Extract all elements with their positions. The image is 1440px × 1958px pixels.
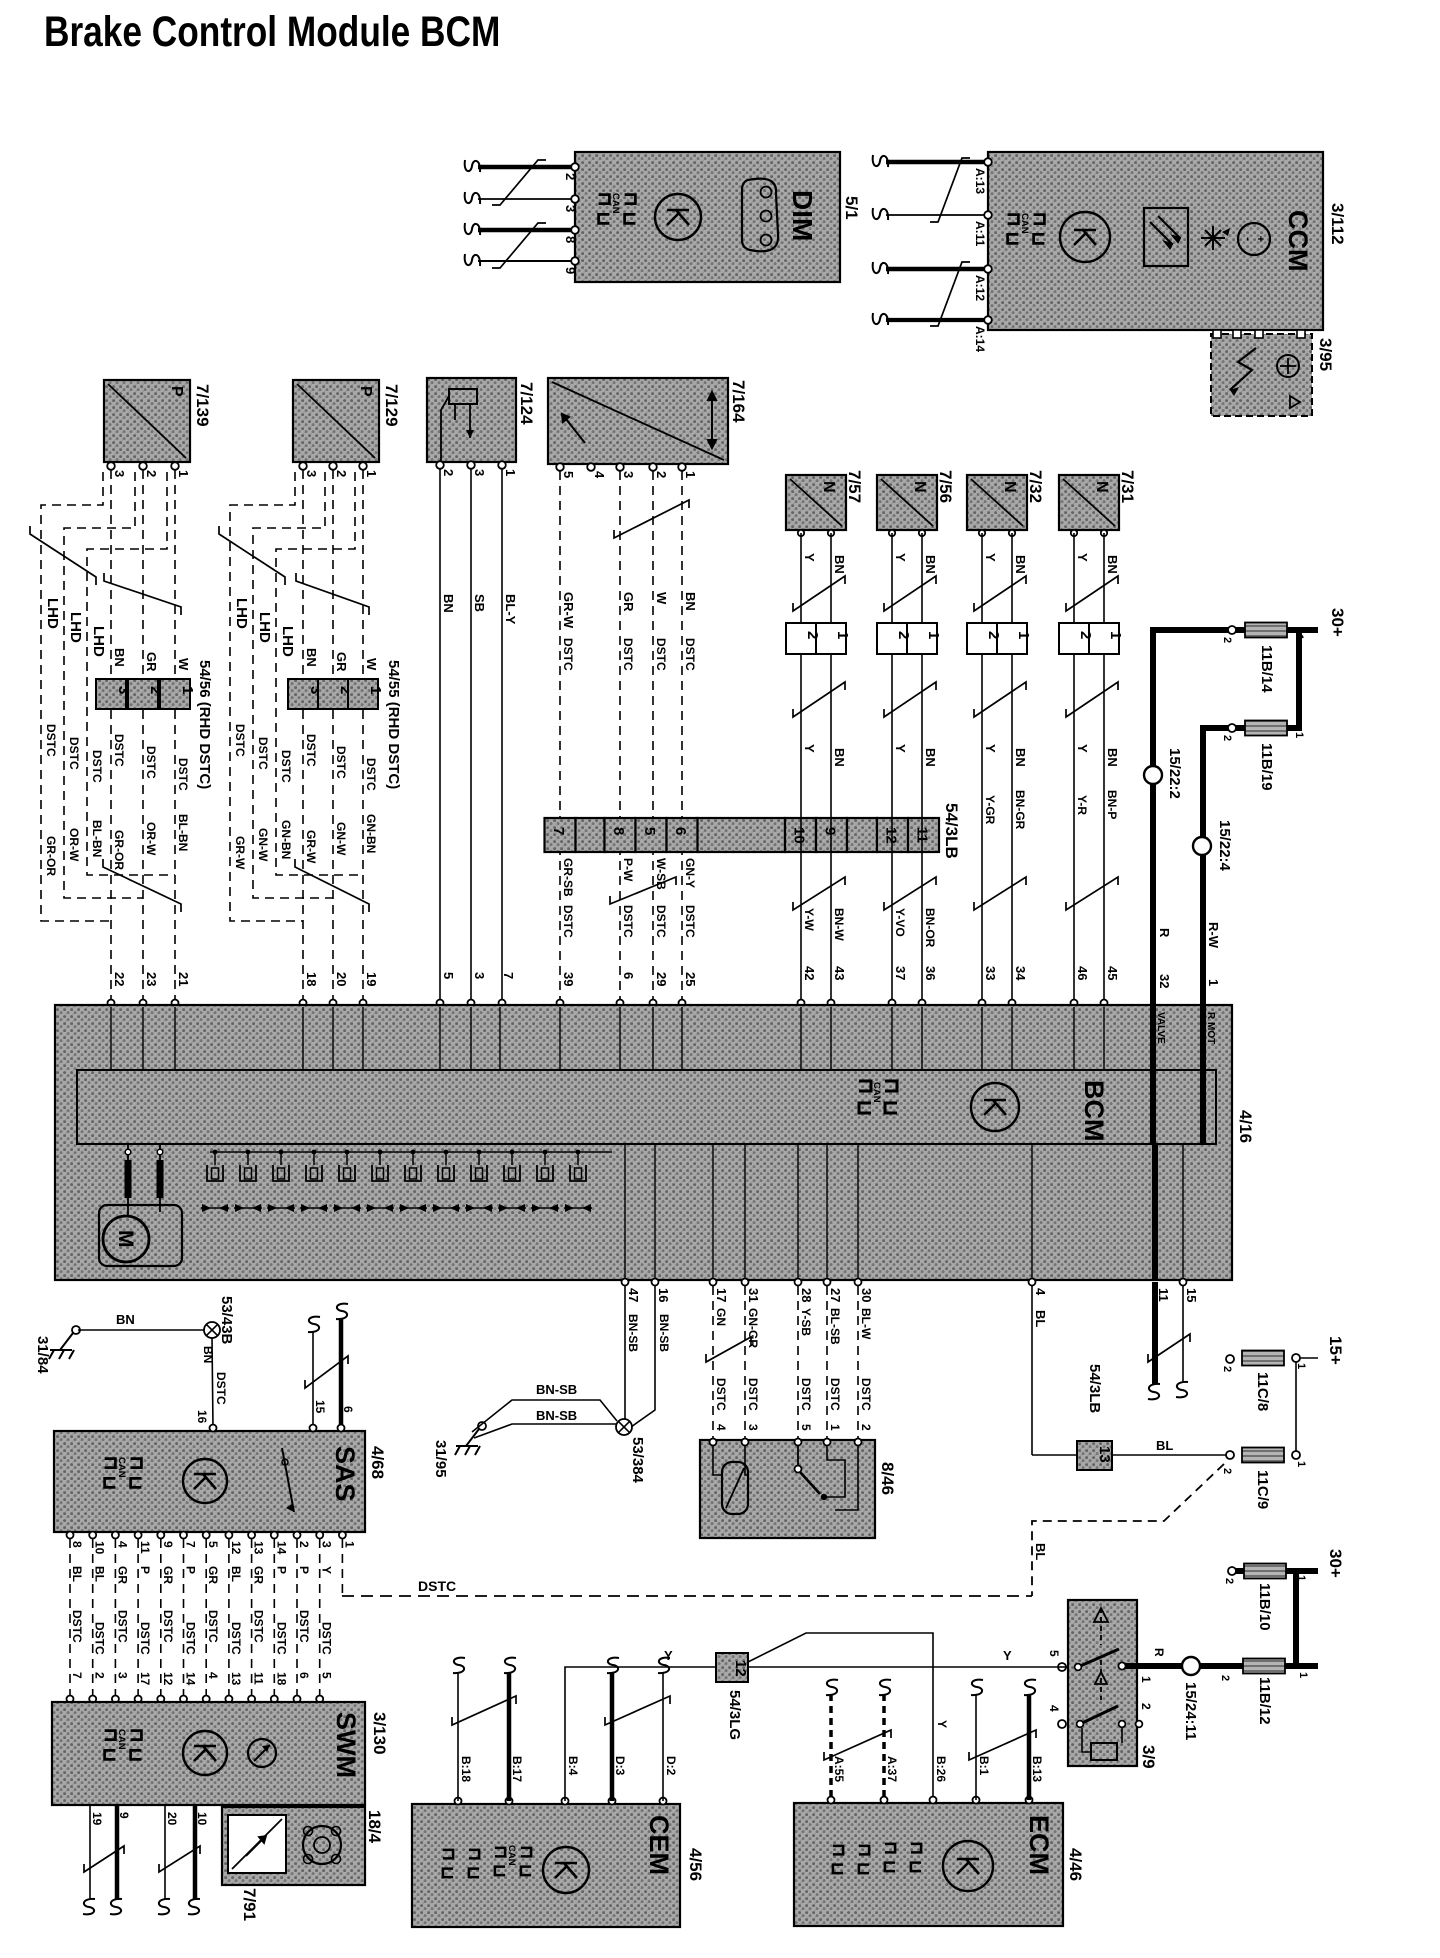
- svg-text:1: 1: [683, 471, 698, 478]
- svg-text:DSTC: DSTC: [621, 905, 635, 938]
- svg-text:M: M: [114, 1230, 137, 1248]
- svg-text:12: 12: [883, 827, 900, 844]
- svg-text:DSTC: DSTC: [70, 1610, 84, 1643]
- svg-text:10: 10: [195, 1812, 209, 1826]
- svg-text:BL: BL: [70, 1566, 84, 1582]
- svg-text:BN: BN: [832, 748, 847, 767]
- svg-text:7: 7: [70, 1672, 84, 1679]
- svg-text:2: 2: [985, 631, 1002, 639]
- svg-text:Y: Y: [1075, 744, 1090, 753]
- svg-text:1: 1: [1295, 1363, 1307, 1369]
- svg-text:1: 1: [828, 1424, 842, 1431]
- svg-text:DSTC: DSTC: [364, 758, 378, 791]
- svg-text:14: 14: [184, 1672, 198, 1686]
- svg-text:17: 17: [714, 1288, 729, 1302]
- svg-text:23: 23: [144, 972, 159, 986]
- svg-text:7/124: 7/124: [517, 382, 536, 425]
- svg-text:CAN: CAN: [506, 1845, 517, 1866]
- svg-text:32: 32: [1157, 974, 1172, 988]
- svg-text:BCM: BCM: [1079, 1080, 1109, 1142]
- svg-text:DSTC: DSTC: [859, 1378, 873, 1411]
- svg-text:DSTC: DSTC: [418, 1578, 456, 1594]
- svg-text:3: 3: [320, 1541, 334, 1548]
- svg-text:19: 19: [364, 972, 379, 986]
- svg-text:2: 2: [1221, 735, 1233, 741]
- svg-text:28: 28: [799, 1288, 814, 1302]
- svg-text:5: 5: [1047, 1650, 1061, 1657]
- svg-text:11C/8: 11C/8: [1254, 1372, 1271, 1411]
- svg-text:BN: BN: [112, 648, 127, 667]
- svg-text:3/112: 3/112: [1328, 203, 1347, 245]
- svg-text:3: 3: [304, 470, 319, 477]
- svg-text:DSTC: DSTC: [274, 1622, 288, 1655]
- svg-text:P: P: [274, 1566, 288, 1574]
- svg-text:47: 47: [626, 1288, 641, 1302]
- svg-text:6: 6: [621, 972, 636, 979]
- svg-text:1: 1: [1015, 631, 1032, 639]
- svg-text:Y: Y: [983, 744, 998, 753]
- svg-text:CAN: CAN: [610, 193, 621, 214]
- svg-text:2: 2: [1077, 631, 1094, 639]
- svg-text:R-W: R-W: [1206, 922, 1221, 949]
- svg-text:BN: BN: [304, 648, 319, 667]
- svg-text:3: 3: [115, 1672, 129, 1679]
- svg-text:+: +: [1254, 236, 1266, 242]
- svg-text:5: 5: [441, 972, 456, 979]
- svg-text:DIM: DIM: [787, 190, 818, 241]
- svg-text:16: 16: [656, 1288, 671, 1302]
- svg-text:34: 34: [1013, 966, 1028, 981]
- svg-text:21: 21: [176, 972, 191, 986]
- svg-text:11B/14: 11B/14: [1258, 645, 1275, 693]
- svg-text:B:13: B:13: [1030, 1756, 1044, 1782]
- svg-text:10: 10: [93, 1541, 107, 1555]
- svg-text:54/3LB: 54/3LB: [942, 803, 961, 859]
- svg-text:13: 13: [1096, 1446, 1113, 1463]
- svg-text:CEM: CEM: [644, 1815, 674, 1875]
- svg-text:GR: GR: [621, 592, 636, 612]
- svg-text:R: R: [1152, 1648, 1166, 1657]
- svg-text:R: R: [1157, 928, 1172, 938]
- svg-text:18: 18: [304, 972, 319, 986]
- svg-text:11: 11: [252, 1672, 266, 1685]
- svg-text:37: 37: [893, 966, 908, 980]
- svg-text:19: 19: [90, 1812, 104, 1826]
- svg-text:25: 25: [683, 972, 698, 986]
- svg-text:3: 3: [621, 471, 636, 478]
- svg-text:6: 6: [341, 1406, 355, 1413]
- svg-text:CAN: CAN: [1019, 213, 1030, 234]
- svg-text:DSTC: DSTC: [297, 1610, 311, 1643]
- svg-text:2: 2: [654, 471, 669, 478]
- svg-text:DSTC: DSTC: [654, 638, 668, 671]
- svg-text:DSTC: DSTC: [683, 638, 697, 671]
- svg-text:BN: BN: [832, 555, 847, 574]
- svg-text:30: 30: [859, 1288, 874, 1302]
- svg-text:4: 4: [206, 1672, 220, 1679]
- svg-text:11B/12: 11B/12: [1256, 1677, 1273, 1725]
- svg-text:BN-SB: BN-SB: [536, 1408, 577, 1423]
- svg-text:DSTC: DSTC: [683, 905, 697, 938]
- svg-text:DSTC: DSTC: [115, 1610, 129, 1643]
- svg-text:3/9: 3/9: [1139, 1745, 1158, 1769]
- svg-text:20: 20: [165, 1812, 179, 1826]
- svg-text:2: 2: [1139, 1703, 1153, 1710]
- svg-text:DSTC: DSTC: [233, 724, 247, 757]
- svg-text:Brake Control Module BCM: Brake Control Module BCM: [44, 8, 500, 56]
- svg-text:5: 5: [561, 471, 576, 478]
- svg-text:BN: BN: [116, 1312, 135, 1327]
- svg-text:SWM: SWM: [331, 1712, 361, 1778]
- svg-text:7/56: 7/56: [936, 470, 955, 503]
- svg-text:14: 14: [274, 1541, 288, 1555]
- svg-text:BN: BN: [1013, 748, 1028, 767]
- svg-text:Y: Y: [893, 744, 908, 753]
- svg-text:A:37: A:37: [885, 1756, 899, 1782]
- svg-text:43: 43: [832, 966, 847, 980]
- svg-text:BL-Y: BL-Y: [503, 594, 518, 625]
- svg-text:GR-SB: GR-SB: [561, 858, 575, 897]
- svg-text:-: -: [1242, 237, 1254, 241]
- svg-text:BN-SB: BN-SB: [626, 1314, 640, 1352]
- svg-text:BL: BL: [1033, 1310, 1048, 1327]
- svg-text:BL-W: BL-W: [859, 1308, 873, 1340]
- svg-text:GN: GN: [714, 1308, 728, 1326]
- svg-text:2: 2: [859, 1424, 873, 1431]
- svg-text:1: 1: [1293, 732, 1305, 738]
- svg-text:GN-W: GN-W: [334, 822, 348, 856]
- svg-text:2: 2: [93, 1672, 107, 1679]
- svg-text:4/16: 4/16: [1236, 1110, 1255, 1143]
- svg-text:2: 2: [297, 1541, 311, 1548]
- svg-text:DSTC: DSTC: [561, 638, 575, 671]
- svg-text:GR-W: GR-W: [561, 592, 576, 629]
- svg-text:B:4: B:4: [566, 1756, 580, 1776]
- svg-text:11C/9: 11C/9: [1254, 1470, 1271, 1509]
- svg-text:15/22:2: 15/22:2: [1166, 748, 1183, 799]
- svg-text:ECM: ECM: [1024, 1815, 1054, 1875]
- svg-text:N: N: [820, 481, 837, 493]
- svg-text:GR: GR: [144, 652, 159, 672]
- svg-text:11B/10: 11B/10: [1256, 1583, 1273, 1631]
- svg-text:GR: GR: [206, 1566, 220, 1584]
- svg-text:LHD: LHD: [67, 612, 84, 643]
- svg-text:1: 1: [179, 686, 196, 694]
- svg-text:18: 18: [274, 1672, 288, 1686]
- svg-text:45: 45: [1105, 966, 1120, 980]
- svg-text:A:13: A:13: [973, 168, 987, 194]
- svg-text:W: W: [364, 658, 379, 671]
- svg-text:9: 9: [117, 1812, 131, 1819]
- svg-text:33: 33: [983, 966, 998, 980]
- svg-text:1: 1: [1107, 631, 1124, 639]
- svg-text:CAN: CAN: [116, 1457, 127, 1478]
- svg-text:1: 1: [1295, 1461, 1307, 1467]
- svg-text:DSTC: DSTC: [304, 734, 318, 767]
- svg-text:46: 46: [1075, 966, 1090, 980]
- svg-text:4: 4: [115, 1541, 129, 1548]
- svg-text:5: 5: [206, 1541, 220, 1548]
- svg-text:7/164: 7/164: [729, 380, 748, 423]
- svg-text:2: 2: [144, 470, 159, 477]
- svg-text:D:2: D:2: [664, 1756, 678, 1776]
- svg-text:P: P: [297, 1566, 311, 1574]
- svg-text:2: 2: [1223, 1578, 1235, 1584]
- svg-text:DSTC: DSTC: [828, 1378, 842, 1411]
- svg-text:15+: 15+: [1326, 1336, 1345, 1365]
- svg-text:GR-W: GR-W: [304, 830, 318, 864]
- svg-text:BN-SB: BN-SB: [657, 1314, 671, 1352]
- svg-text:4/68: 4/68: [368, 1446, 387, 1479]
- svg-text:8: 8: [610, 827, 627, 835]
- svg-text:GN-BN: GN-BN: [364, 814, 378, 853]
- svg-text:N: N: [1093, 481, 1110, 493]
- svg-text:DSTC: DSTC: [746, 1378, 760, 1411]
- svg-text:P: P: [168, 386, 185, 397]
- svg-text:Y: Y: [802, 744, 817, 753]
- svg-text:2: 2: [441, 469, 456, 476]
- svg-text:CAN: CAN: [871, 1082, 882, 1103]
- svg-text:DSTC: DSTC: [93, 1622, 107, 1655]
- svg-text:A:55: A:55: [832, 1756, 846, 1782]
- svg-text:GR: GR: [252, 1566, 266, 1584]
- svg-text:BN: BN: [923, 748, 938, 767]
- svg-text:11: 11: [138, 1541, 152, 1554]
- svg-text:DSTC: DSTC: [112, 734, 126, 767]
- svg-text:1: 1: [1295, 1575, 1307, 1581]
- svg-text:15/24:11: 15/24:11: [1182, 1682, 1199, 1740]
- svg-text:5: 5: [799, 1424, 813, 1431]
- svg-text:BN: BN: [1105, 555, 1120, 574]
- svg-text:6: 6: [672, 827, 689, 835]
- svg-text:BN-W: BN-W: [832, 908, 846, 941]
- svg-text:GR-OR: GR-OR: [44, 836, 58, 876]
- svg-text:7: 7: [501, 972, 516, 979]
- svg-text:SB: SB: [472, 594, 487, 612]
- svg-text:BN-OR: BN-OR: [923, 908, 937, 948]
- svg-text:54/3LB: 54/3LB: [1086, 1364, 1103, 1413]
- svg-text:11B/19: 11B/19: [1258, 743, 1275, 791]
- svg-text:1: 1: [1297, 1672, 1309, 1678]
- svg-text:12: 12: [732, 1660, 749, 1677]
- svg-text:17: 17: [138, 1672, 152, 1686]
- svg-text:8: 8: [563, 236, 578, 243]
- svg-text:Y: Y: [935, 1720, 949, 1728]
- svg-text:Y: Y: [664, 1648, 673, 1663]
- svg-text:BL: BL: [1033, 1543, 1048, 1560]
- svg-text:30+: 30+: [1326, 1549, 1345, 1578]
- svg-text:DSTC: DSTC: [799, 1378, 813, 1411]
- svg-text:Y: Y: [893, 553, 908, 562]
- svg-text:10: 10: [791, 827, 808, 844]
- svg-text:7/129: 7/129: [382, 384, 401, 427]
- svg-text:BN: BN: [201, 1346, 215, 1363]
- svg-text:BN-SB: BN-SB: [536, 1382, 577, 1397]
- svg-text:B:1: B:1: [977, 1756, 991, 1776]
- svg-text:1: 1: [503, 469, 518, 476]
- svg-text:LHD: LHD: [90, 626, 107, 657]
- svg-text:Y-R: Y-R: [1075, 795, 1089, 815]
- svg-text:29: 29: [654, 972, 669, 986]
- svg-text:1: 1: [1206, 979, 1221, 986]
- svg-text:8: 8: [70, 1541, 84, 1548]
- svg-text:22: 22: [112, 972, 127, 986]
- svg-text:B:26: B:26: [934, 1756, 948, 1782]
- svg-text:GR-OR: GR-OR: [112, 830, 126, 870]
- svg-text:DSTC: DSTC: [138, 1622, 152, 1655]
- svg-text:BN: BN: [1105, 748, 1120, 767]
- svg-text:P: P: [184, 1566, 198, 1574]
- svg-text:54/55 (RHD DSTC): 54/55 (RHD DSTC): [385, 660, 402, 789]
- svg-text:LHD: LHD: [279, 626, 296, 657]
- svg-text:BL-BN: BL-BN: [176, 814, 190, 851]
- svg-text:OR-W: OR-W: [67, 828, 81, 862]
- svg-text:Y-VO: Y-VO: [893, 908, 907, 937]
- svg-text:4: 4: [1033, 1288, 1048, 1296]
- svg-text:4/46: 4/46: [1066, 1848, 1085, 1881]
- svg-text:CCM: CCM: [1283, 210, 1313, 272]
- svg-text:2: 2: [1221, 1366, 1233, 1372]
- svg-text:1: 1: [1139, 1676, 1153, 1683]
- svg-text:7/139: 7/139: [193, 384, 212, 427]
- svg-text:CAN: CAN: [116, 1729, 127, 1750]
- svg-text:Y: Y: [1003, 1648, 1012, 1663]
- svg-text:53/43B: 53/43B: [218, 1296, 235, 1345]
- svg-text:W: W: [176, 658, 191, 671]
- svg-text:54/3LG: 54/3LG: [726, 1690, 743, 1740]
- svg-text:1: 1: [176, 470, 191, 477]
- svg-text:3: 3: [472, 972, 487, 979]
- svg-text:Y-W: Y-W: [802, 908, 816, 931]
- svg-text:31: 31: [746, 1288, 761, 1302]
- svg-text:7/91: 7/91: [240, 1888, 259, 1921]
- svg-text:39: 39: [561, 972, 576, 986]
- svg-text:3: 3: [746, 1424, 760, 1431]
- svg-text:4: 4: [1047, 1705, 1061, 1712]
- svg-text:BN-P: BN-P: [1105, 790, 1119, 819]
- svg-text:1: 1: [364, 470, 379, 477]
- svg-text:P: P: [357, 386, 374, 397]
- svg-text:3: 3: [563, 205, 578, 212]
- svg-text:DSTC: DSTC: [176, 758, 190, 791]
- svg-text:4: 4: [714, 1424, 728, 1431]
- svg-text:1: 1: [834, 631, 851, 639]
- svg-text:42: 42: [802, 966, 817, 980]
- svg-text:DSTC: DSTC: [279, 750, 293, 783]
- svg-text:15: 15: [313, 1400, 327, 1414]
- svg-text:DSTC: DSTC: [561, 905, 575, 938]
- svg-text:GN-Y: GN-Y: [683, 858, 697, 888]
- svg-text:7/31: 7/31: [1118, 470, 1137, 503]
- svg-text:OR-W: OR-W: [144, 822, 158, 856]
- svg-text:7: 7: [550, 827, 567, 835]
- svg-text:BL-BN: BL-BN: [90, 820, 104, 857]
- svg-text:A:14: A:14: [973, 326, 987, 352]
- svg-text:20: 20: [334, 972, 349, 986]
- svg-text:BN-GR: BN-GR: [1013, 790, 1027, 830]
- svg-text:5/1: 5/1: [842, 196, 861, 220]
- svg-text:DSTC: DSTC: [214, 1372, 228, 1405]
- svg-text:BN: BN: [683, 592, 698, 611]
- svg-text:30+: 30+: [1328, 608, 1347, 637]
- svg-text:DSTC: DSTC: [229, 1622, 243, 1655]
- svg-text:P-W: P-W: [621, 858, 635, 882]
- svg-text:GN-W: GN-W: [256, 828, 270, 862]
- svg-text:7/32: 7/32: [1026, 470, 1045, 503]
- svg-text:A:11: A:11: [973, 221, 987, 247]
- svg-text:BL-SB: BL-SB: [828, 1308, 842, 1345]
- svg-text:7: 7: [184, 1541, 198, 1548]
- svg-text:DSTC: DSTC: [144, 746, 158, 779]
- svg-text:BL: BL: [229, 1566, 243, 1582]
- svg-text:2: 2: [1219, 1675, 1231, 1681]
- svg-text:DSTC: DSTC: [621, 638, 635, 671]
- svg-text:5: 5: [320, 1672, 334, 1679]
- svg-text:4/56: 4/56: [686, 1848, 705, 1881]
- svg-text:9: 9: [563, 267, 578, 274]
- svg-text:3/130: 3/130: [370, 1712, 389, 1755]
- svg-text:9: 9: [822, 827, 839, 835]
- svg-text:N: N: [1001, 481, 1018, 493]
- svg-text:2: 2: [563, 173, 578, 180]
- svg-text:GN-BN: GN-BN: [279, 820, 293, 859]
- svg-text:13: 13: [229, 1672, 243, 1686]
- svg-text:GR-W: GR-W: [233, 836, 247, 870]
- svg-text:5: 5: [641, 827, 658, 835]
- svg-text:2: 2: [1221, 637, 1233, 643]
- svg-text:15/22:4: 15/22:4: [1216, 820, 1233, 872]
- svg-text:1: 1: [925, 631, 942, 639]
- svg-text:A:12: A:12: [973, 275, 987, 301]
- svg-text:15: 15: [1184, 1288, 1199, 1302]
- svg-text:DSTC: DSTC: [334, 746, 348, 779]
- svg-text:1: 1: [342, 1541, 356, 1548]
- svg-text:LHD: LHD: [44, 598, 61, 629]
- svg-text:Y: Y: [1075, 553, 1090, 562]
- svg-text:2: 2: [334, 470, 349, 477]
- svg-text:3: 3: [112, 470, 127, 477]
- svg-text:BN: BN: [923, 555, 938, 574]
- svg-text:GN-GR: GN-GR: [746, 1308, 760, 1348]
- svg-text:Y: Y: [320, 1566, 334, 1574]
- svg-text:11: 11: [1156, 1288, 1171, 1302]
- svg-text:GR: GR: [161, 1566, 175, 1584]
- svg-text:6: 6: [297, 1672, 311, 1679]
- svg-text:1: 1: [1293, 634, 1305, 640]
- svg-text:27: 27: [828, 1288, 843, 1302]
- svg-text:12: 12: [161, 1672, 175, 1686]
- svg-text:DSTC: DSTC: [654, 905, 668, 938]
- svg-text:8/46: 8/46: [878, 1462, 897, 1495]
- svg-text:DSTC: DSTC: [256, 737, 270, 770]
- svg-text:BN: BN: [1013, 555, 1028, 574]
- svg-text:P: P: [138, 1566, 152, 1574]
- svg-text:9: 9: [161, 1541, 175, 1548]
- svg-text:3/95: 3/95: [1316, 338, 1335, 371]
- svg-text:R MOT: R MOT: [1205, 1012, 1216, 1044]
- svg-text:54/56 (RHD DSTC): 54/56 (RHD DSTC): [196, 660, 213, 789]
- svg-text:2: 2: [895, 631, 912, 639]
- svg-text:7/57: 7/57: [845, 470, 864, 503]
- svg-text:BN: BN: [441, 594, 456, 613]
- svg-text:4: 4: [592, 471, 607, 479]
- svg-text:GR: GR: [115, 1566, 129, 1584]
- svg-text:DSTC: DSTC: [161, 1610, 175, 1643]
- svg-text:GR: GR: [334, 652, 349, 672]
- svg-text:SAS: SAS: [330, 1446, 360, 1502]
- svg-text:12: 12: [229, 1541, 243, 1555]
- svg-text:BL: BL: [1156, 1438, 1173, 1453]
